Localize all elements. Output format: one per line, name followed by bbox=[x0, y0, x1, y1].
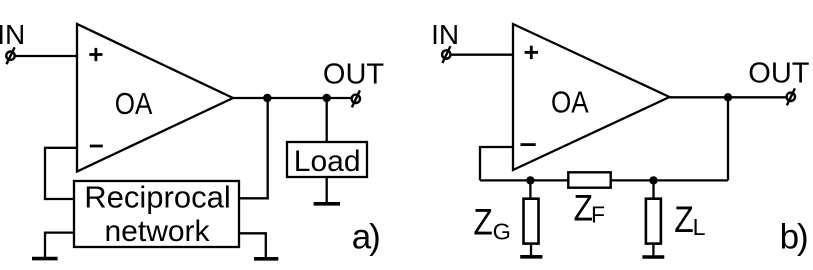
ground under ZG (b) bbox=[520, 255, 542, 259]
label ZF bbox=[574, 187, 606, 229]
wire IN to op-amp + (b) bbox=[450, 54, 514, 56]
wire rail up to output node (b) bbox=[727, 97, 729, 180]
svg-text:L: L bbox=[693, 214, 706, 240]
op-amp U2 minus input marking (b) bbox=[521, 143, 536, 146]
svg-text:OA: OA bbox=[551, 85, 589, 120]
junction feedback node (a) bbox=[263, 94, 271, 102]
wire Load to ground (a) bbox=[326, 177, 328, 204]
junction node G (b) bbox=[526, 176, 534, 184]
wire network left port to ground (a) bbox=[45, 233, 74, 259]
terminal IN (b) bbox=[442, 46, 450, 63]
reciprocal network box (a) bbox=[74, 181, 239, 247]
op-amp U2 plus input marking (b) bbox=[525, 46, 538, 59]
junction load node (a) bbox=[323, 94, 331, 102]
label ZL bbox=[674, 199, 705, 241]
svg-text:OA: OA bbox=[115, 87, 153, 122]
wire ZG to ground (b) bbox=[530, 244, 532, 257]
svg-text:IN: IN bbox=[0, 19, 25, 50]
impedance ZF box (b) bbox=[568, 172, 610, 187]
impedance ZG box (b) bbox=[524, 199, 539, 244]
svg-text:IN: IN bbox=[431, 19, 459, 50]
svg-text:Z: Z bbox=[674, 199, 693, 241]
junction output node (b) bbox=[724, 93, 732, 101]
svg-text:a): a) bbox=[352, 218, 379, 257]
wire op-amp output to OUT (b) bbox=[670, 96, 787, 98]
svg-text:network: network bbox=[105, 215, 211, 248]
wire node L to ZL (b) bbox=[652, 180, 654, 199]
ground right of network (a) bbox=[254, 257, 278, 261]
ground under Load (a) bbox=[314, 202, 340, 206]
wire IN to op-amp + (a) bbox=[15, 55, 78, 57]
wire bottom rail (b) bbox=[480, 179, 728, 181]
terminal OUT (b) bbox=[787, 88, 795, 105]
terminal OUT (a) bbox=[352, 90, 360, 107]
wire feedback from minus input down (b) bbox=[480, 147, 513, 180]
wire ZL to ground (b) bbox=[652, 244, 654, 257]
wire node G to ZG (b) bbox=[529, 180, 531, 199]
svg-text:OUT: OUT bbox=[748, 58, 810, 90]
op-amp U1 minus input marking (a) bbox=[90, 145, 103, 148]
svg-text:Z: Z bbox=[473, 201, 492, 243]
ground under ZL (b) bbox=[642, 255, 664, 259]
wire feedback from minus input to network (a) bbox=[45, 148, 77, 199]
op-amp U1 plus input marking (a) bbox=[89, 48, 102, 61]
wire network right lower port to ground (a) bbox=[239, 233, 266, 258]
svg-text:b): b) bbox=[780, 218, 807, 257]
impedance ZL box (b) bbox=[646, 199, 661, 244]
junction node L (b) bbox=[649, 176, 657, 184]
op-amp U1 (a) bbox=[77, 24, 233, 172]
load box (a) bbox=[287, 142, 367, 177]
svg-text:F: F bbox=[591, 202, 605, 228]
svg-text:OUT: OUT bbox=[323, 59, 385, 91]
label ZG bbox=[473, 201, 510, 244]
wire network right port to output node (a) bbox=[239, 98, 268, 198]
terminal IN (a) bbox=[6, 47, 14, 64]
wire load node down to Load (a) bbox=[326, 98, 328, 142]
ground left of network (a) bbox=[32, 257, 58, 261]
svg-text:Load: Load bbox=[294, 145, 361, 178]
svg-text:Reciprocal: Reciprocal bbox=[84, 180, 230, 215]
svg-text:G: G bbox=[493, 219, 511, 245]
op-amp U2 (b) bbox=[513, 24, 670, 170]
wire op-amp output to OUT (a) bbox=[233, 97, 352, 99]
